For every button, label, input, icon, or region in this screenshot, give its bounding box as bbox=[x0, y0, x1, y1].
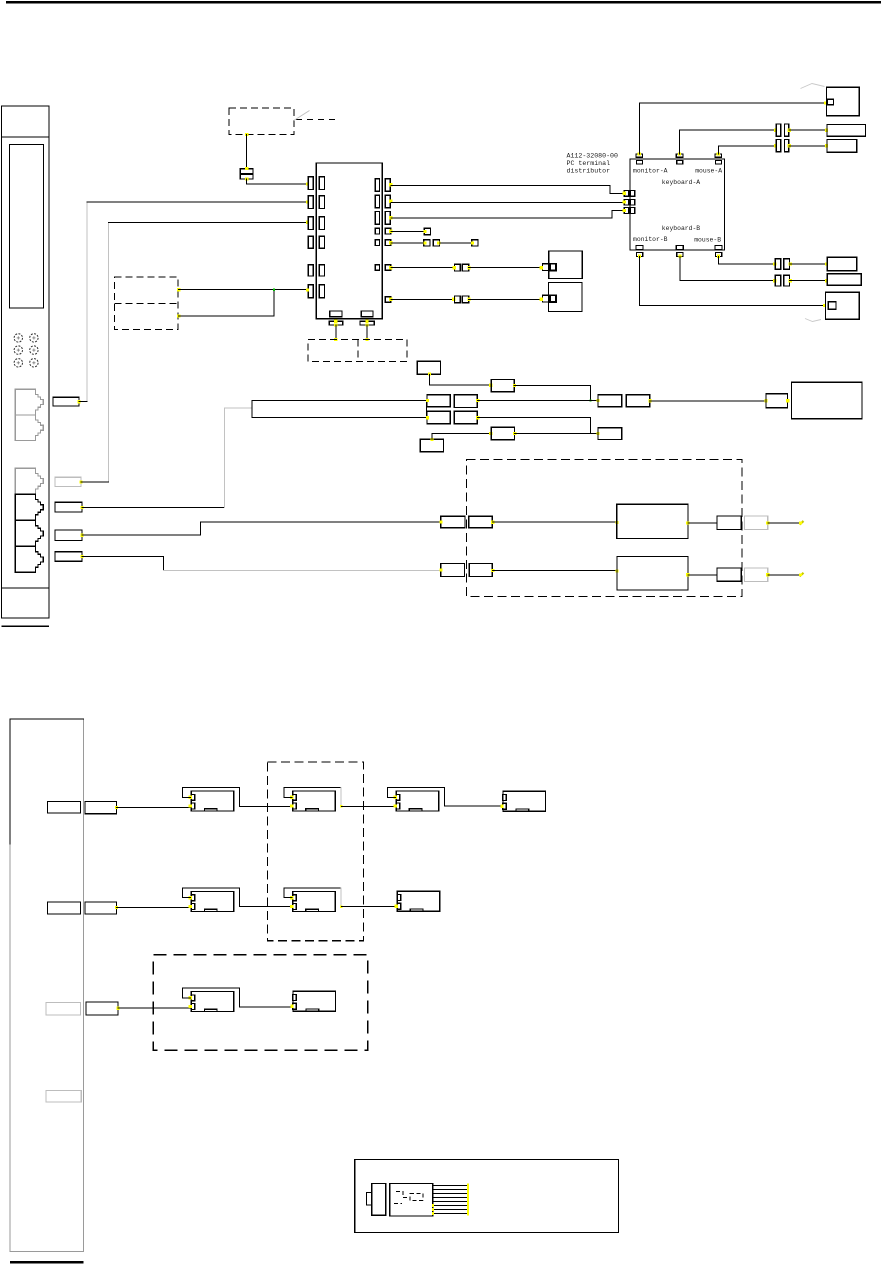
mouse B box bbox=[827, 257, 856, 270]
adapter box D1 bbox=[766, 394, 788, 408]
wire CN1 to block pin L1 bbox=[247, 179, 307, 184]
distributor bottom port 3 bbox=[715, 245, 722, 249]
wire converter row1 out bbox=[688, 522, 717, 524]
top border rule bbox=[6, 1, 881, 4]
output connector row1 bbox=[717, 516, 741, 529]
line driver module row1-3 loop wire bbox=[388, 788, 445, 798]
legend wire 4 bbox=[433, 1197, 467, 1199]
wire P2 to riser bbox=[81, 481, 108, 483]
wire keyboard-A segment 2 bbox=[789, 129, 827, 131]
inline squares R5 bbox=[424, 240, 430, 246]
unit A modular jack J2 (gray) bbox=[15, 415, 43, 441]
unit A modular jack J4 bbox=[15, 494, 43, 520]
legend wire 5 bbox=[433, 1201, 467, 1203]
distributor bottom port 2 bbox=[676, 245, 683, 249]
patch connector row1 b bbox=[469, 516, 493, 528]
unit B top edge bbox=[10, 718, 84, 720]
monitor A box bbox=[827, 87, 860, 116]
adapter box C1 bbox=[598, 395, 622, 407]
line driver module row3-1 bbox=[191, 992, 234, 1012]
adapter box A1 bbox=[491, 380, 514, 392]
wire P5 to patch row2 (gray) bbox=[163, 569, 441, 571]
wire unit B port B to module bbox=[116, 907, 190, 909]
mouse A box bbox=[827, 140, 857, 153]
junction box JB2 bbox=[420, 439, 443, 452]
legend connector body bbox=[390, 1183, 433, 1216]
converter box row1 bbox=[617, 504, 688, 538]
unit A bottom cap line bbox=[2, 587, 50, 589]
svg-text:mouse-A: mouse-A bbox=[695, 167, 722, 174]
wire P3 horizontal bbox=[82, 506, 224, 508]
unit B port A inner bbox=[47, 802, 80, 813]
wire mouse-B bbox=[719, 256, 775, 264]
wire R6 segment 1 bbox=[391, 267, 455, 269]
plug P4 bbox=[55, 530, 82, 540]
block bottom pin pair B1 bbox=[330, 311, 342, 317]
cable end row2 bbox=[800, 573, 804, 577]
wire callout to inline connector bbox=[246, 134, 248, 168]
monitor A connector square bbox=[827, 99, 833, 105]
wire row1 to converter bbox=[492, 521, 616, 523]
converter dashed enclosure bbox=[466, 460, 742, 597]
wire module row2-1 to row2-2 bbox=[240, 906, 292, 908]
line driver module row2-1 bbox=[191, 892, 234, 912]
wire P2 riser (gray) bbox=[107, 222, 109, 482]
dashed adapter divider bbox=[115, 302, 179, 304]
wire adapter tap 1 to block pin L6 bbox=[179, 289, 307, 291]
inline connector pair R7a bbox=[455, 296, 461, 303]
sketch mark near monitor B (gray) bbox=[805, 319, 821, 322]
wire row1 tail bbox=[768, 522, 800, 524]
unit A mini-DIN connector 3 bbox=[14, 346, 22, 354]
block bottom pin pair B2 bbox=[361, 311, 373, 317]
plug P2 (gray) bbox=[55, 477, 81, 486]
unit B base underline bbox=[10, 1261, 84, 1264]
wire R1 to distributor monitor port bbox=[391, 185, 624, 193]
unit B port C outer plug bbox=[86, 1002, 118, 1015]
plug P3 bbox=[55, 502, 82, 512]
bus end connector row1 b bbox=[454, 395, 477, 408]
unit B port D inner (gray) bbox=[46, 1091, 81, 1102]
inline connector pair R7b bbox=[543, 295, 549, 302]
unit A mini-DIN connector 5 bbox=[14, 359, 22, 367]
wire A2 to G1 bbox=[515, 433, 598, 435]
wire row2 to junction bbox=[477, 418, 590, 434]
block right pin pair R3 bbox=[375, 212, 379, 225]
output connector row2 (gray) bbox=[745, 568, 768, 581]
terminator module row3 bbox=[293, 991, 336, 1011]
block left pin pair L6 bbox=[308, 285, 313, 298]
wire adapter junction riser bbox=[273, 290, 275, 316]
svg-text:A112-32080-00: A112-32080-00 bbox=[567, 152, 618, 159]
distributor top port 3 bbox=[715, 154, 722, 157]
unit A modular jack J3 (gray) bbox=[15, 468, 43, 494]
svg-text:monitor-B: monitor-B bbox=[633, 236, 668, 243]
terminal device box E1 bbox=[792, 382, 863, 419]
wire module row1-2 to row1-3 bbox=[341, 805, 395, 807]
wire R4 stub bbox=[391, 231, 425, 233]
legend wire 1 bbox=[433, 1185, 467, 1187]
wire unit B port A to module bbox=[116, 806, 190, 808]
plug P5 bbox=[55, 552, 82, 561]
wire converter row2 out bbox=[688, 574, 717, 576]
unit A mini-DIN connector 4 bbox=[30, 346, 38, 354]
wire JB1 down-right bbox=[429, 374, 490, 385]
unit B left edge upper bbox=[9, 719, 11, 844]
legend wire 8 bbox=[433, 1213, 467, 1215]
svg-text:keyboard-A: keyboard-A bbox=[662, 179, 701, 186]
unit B port B inner bbox=[47, 902, 80, 914]
unit A mini-DIN connector 1 bbox=[14, 334, 22, 342]
wire keyboard-B segment 2 bbox=[790, 280, 827, 282]
wire R3 to distributor mouse port bbox=[391, 211, 624, 219]
legend latch detail (dashed) bbox=[396, 1192, 409, 1198]
dashed callout box (option) bbox=[229, 108, 294, 135]
bus end connector row2 b bbox=[454, 411, 477, 424]
dashed option box below block bbox=[308, 339, 407, 361]
callout leader dashes bbox=[296, 118, 339, 120]
wire row2 to converter bbox=[492, 570, 617, 572]
patch connector row2 b bbox=[469, 564, 492, 577]
cable bus rectangle bbox=[252, 401, 427, 418]
line driver module row1-1 loop wire bbox=[183, 788, 240, 798]
wire R5 stub bbox=[391, 242, 425, 244]
wire keyboard-A bbox=[680, 130, 776, 154]
wire module row1-1 to row1-2 bbox=[240, 805, 292, 807]
svg-text:keyboard-B: keyboard-B bbox=[662, 225, 701, 232]
junction box JB1 bbox=[417, 361, 440, 374]
wire module row1-3 to end box bbox=[445, 805, 503, 807]
distributor top port 1 bbox=[636, 154, 643, 157]
dashed enclosure around row3 modules bbox=[153, 955, 367, 1051]
unit B port B outer plug bbox=[85, 902, 117, 914]
unit A modular jack J5 bbox=[15, 521, 43, 547]
inline connector pair R6b bbox=[543, 264, 549, 271]
callout leader diagonal (gray) bbox=[294, 111, 310, 121]
wire riser to block pin L2 bbox=[87, 201, 307, 203]
wire P1 to riser bbox=[79, 401, 87, 403]
wire P3 riser (gray) bbox=[223, 408, 225, 507]
inline connector pair mouse-A bbox=[776, 140, 780, 152]
wire monitor-B bbox=[640, 256, 825, 305]
wire R7 segment 1 bbox=[391, 298, 455, 300]
wire block B2 down bbox=[366, 325, 368, 339]
inline connector pair keyboard-A bbox=[776, 124, 780, 136]
inline connector pair mouse-B bbox=[775, 259, 780, 270]
distributor top port 2 bbox=[676, 154, 683, 157]
distributor bottom port 1 bbox=[636, 245, 643, 249]
wire JB2 up-right bbox=[432, 433, 491, 439]
dashed option box divider bbox=[357, 339, 359, 361]
line driver module row2-2 bbox=[293, 892, 336, 912]
block left pin pair L2 bbox=[308, 196, 313, 209]
legend connector collar bbox=[372, 1183, 386, 1215]
block right pin R7 bbox=[385, 297, 390, 302]
block left pin pair L4 bbox=[308, 236, 313, 248]
bus end connector row1 a bbox=[427, 395, 450, 407]
inline connector CN1 bbox=[240, 169, 253, 174]
legend connector tip bbox=[367, 1193, 373, 1206]
block right pin pair R5 bbox=[375, 240, 379, 246]
svg-text:monitor-A: monitor-A bbox=[633, 167, 668, 174]
wire monitor-A bbox=[639, 103, 825, 154]
wire adapter tap 2 bbox=[179, 315, 274, 317]
block left pin pair L3 bbox=[308, 217, 313, 230]
adapter box A2 bbox=[491, 427, 514, 439]
legend wire 3 bbox=[433, 1193, 467, 1195]
wire module row3-1 to end module bbox=[240, 1006, 293, 1008]
wire C2 to D1 bbox=[650, 400, 766, 402]
wire R7 segment 2 bbox=[469, 298, 542, 300]
cable end row1 bbox=[800, 521, 804, 525]
block left pin pair L1 bbox=[308, 177, 313, 190]
output connector row1 (gray) bbox=[745, 516, 768, 529]
wire mouse-A segment 2 bbox=[789, 145, 827, 147]
wire module row2-2 to end module bbox=[341, 906, 397, 908]
PC terminal distributor internal block bbox=[316, 163, 382, 319]
line driver module row2-1 loop wire bbox=[183, 888, 240, 898]
block right pin pair R1 bbox=[375, 179, 379, 192]
keyboard A box bbox=[827, 124, 866, 136]
svg-text:PC terminal: PC terminal bbox=[567, 160, 611, 167]
line driver module row1-2 bbox=[293, 791, 336, 811]
wire row2 tail bbox=[768, 574, 800, 576]
wire R2 to distributor keyboard port bbox=[391, 202, 624, 204]
wire P1 riser (gray) bbox=[86, 202, 88, 402]
distributor left port 3 bbox=[624, 208, 629, 214]
line driver module row1-2 loop wire bbox=[284, 788, 341, 798]
block right pin pair R2 bbox=[375, 195, 379, 208]
dashed adapter box left bbox=[115, 277, 179, 329]
keyboard B box bbox=[827, 274, 861, 286]
unit B port A outer plug bbox=[85, 802, 117, 814]
unit A front slot panel bbox=[10, 145, 44, 309]
unit A modular jack J6 bbox=[15, 547, 43, 573]
inline connector pair keyboard-B bbox=[775, 275, 780, 286]
line driver module row1-1 bbox=[191, 791, 234, 811]
adapter box G1 bbox=[598, 428, 622, 440]
terminator square R4 bbox=[424, 228, 430, 234]
block left pin pair L5 bbox=[308, 265, 313, 276]
svg-text:distributor: distributor bbox=[567, 167, 611, 174]
inline connector pair R6a bbox=[455, 264, 461, 271]
patch connector row2 a bbox=[441, 564, 465, 577]
system unit B enclosure (gray) bbox=[10, 719, 84, 1252]
PC terminal distributor box bbox=[630, 159, 724, 250]
legend wire 6 bbox=[433, 1205, 467, 1207]
patch connector row1 a bbox=[441, 516, 465, 528]
distributor left port 1 bbox=[624, 191, 629, 197]
wire R6 segment 2 bbox=[469, 267, 542, 269]
terminator square R5 bbox=[472, 240, 478, 246]
line driver module row3-1 loop wire bbox=[183, 988, 240, 998]
terminator module row1 bbox=[503, 791, 546, 811]
monitor B connector square bbox=[828, 302, 836, 310]
monitor B box bbox=[826, 292, 860, 319]
svg-text:mouse-B: mouse-B bbox=[694, 237, 721, 244]
legend box bbox=[355, 1160, 619, 1233]
terminator module row2 bbox=[397, 891, 440, 911]
legend wire 7 bbox=[433, 1209, 467, 1211]
mouse-A terminal box bbox=[549, 283, 582, 312]
bus end connector row2 a bbox=[427, 411, 450, 424]
line driver module row1-3 bbox=[396, 791, 439, 811]
wire mouse-B segment 2 bbox=[790, 263, 827, 265]
distributor left port 2 bbox=[624, 199, 629, 205]
sketch mark near monitor A (gray) bbox=[801, 84, 825, 89]
wire A1 to junction bbox=[514, 386, 590, 401]
output connector row2 bbox=[717, 568, 741, 581]
line driver module row2-2 loop wire bbox=[284, 888, 341, 898]
wire P4 to patch row1 bbox=[82, 522, 441, 535]
dashed enclosure around column2 modules bbox=[267, 762, 363, 941]
plug P1 bbox=[53, 397, 79, 406]
wire keyboard-B bbox=[680, 256, 775, 280]
wire R5 link bbox=[440, 242, 472, 244]
system unit A enclosure bbox=[2, 106, 50, 618]
wire unit B port C to module bbox=[118, 1007, 190, 1009]
keyboard-A terminal box bbox=[549, 251, 582, 279]
unit A modular jack J1 (gray) bbox=[15, 389, 43, 415]
wire riser to bus (gray) bbox=[224, 407, 252, 409]
legend wire 2 bbox=[433, 1189, 467, 1191]
unit B port C inner (gray) bbox=[46, 1002, 80, 1015]
block right pin pair R4 bbox=[375, 228, 379, 234]
wire block B1 down bbox=[335, 325, 337, 339]
unit A top cap line bbox=[2, 136, 50, 138]
block right pin pair R6 bbox=[375, 265, 379, 271]
adapter box C2 bbox=[626, 395, 649, 407]
unit A mini-DIN connector 6 bbox=[30, 359, 38, 367]
wire P5 horizontal bbox=[82, 557, 163, 571]
unit A mini-DIN connector 2 bbox=[30, 334, 38, 342]
unit A base underline bbox=[2, 626, 49, 627]
wire riser to block pin L3 bbox=[108, 221, 306, 223]
wire mouse-A bbox=[718, 146, 775, 154]
wire row1 to C1 bbox=[477, 400, 598, 402]
converter box row2 bbox=[617, 557, 688, 590]
